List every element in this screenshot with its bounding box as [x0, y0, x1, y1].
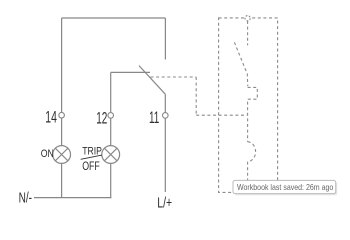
lamp TRIP/OFF	[102, 146, 120, 164]
wire: 12 horizontal stub to switch	[111, 71, 150, 73]
svg-text:ON: ON	[41, 148, 54, 160]
svg-text:N/-: N/-	[19, 191, 33, 207]
svg-text:14: 14	[45, 108, 57, 127]
breaker internal: blade (dashed)	[234, 42, 247, 86]
breaker internal: coil bulge	[248, 142, 256, 162]
dashed enclosure box (breaker)	[219, 18, 278, 193]
divider slash between TRIP and OFF	[81, 155, 102, 159]
dashed link horizontal into breaker box	[196, 114, 247, 116]
lamp ON	[53, 146, 71, 164]
wire: right vertical upper (fixed contact of switch)	[164, 18, 166, 60]
breaker internal: tail vertical to tooltip	[247, 162, 249, 180]
svg-text:11: 11	[149, 108, 159, 127]
wire: below lamp ON down to bottom bus	[61, 163, 63, 198]
breaker internal: latch step and vertical	[248, 87, 258, 141]
wire: 11 column vertical	[164, 94, 166, 192]
wire: below lamp TRIP/OFF down to bottom bus corner	[110, 163, 112, 198]
switch blade S1	[139, 66, 165, 95]
svg-text:OFF: OFF	[82, 161, 100, 173]
node terminal 12	[108, 113, 114, 119]
svg-text:12: 12	[96, 109, 107, 128]
wire: 12 column vertical	[110, 72, 112, 145]
tooltip box	[233, 180, 336, 193]
tooltip shadow	[235, 182, 338, 195]
breaker internal: vertical from terminal	[247, 21, 249, 45]
node terminal on box top	[245, 16, 250, 21]
dashed mechanical link horizontal from switch	[151, 76, 197, 78]
svg-text:Workbook last saved: 26m ago: Workbook last saved: 26m ago	[237, 182, 333, 192]
node terminal 14	[59, 112, 65, 118]
dashed link vertical	[195, 77, 197, 115]
svg-text:L/+: L/+	[157, 195, 172, 211]
wire: left vertical from top corner down to lamp ON	[61, 18, 63, 146]
node terminal 11	[163, 113, 169, 119]
wire: bottom bus N/-	[34, 197, 111, 199]
wire: top horizontal bus	[62, 17, 166, 19]
